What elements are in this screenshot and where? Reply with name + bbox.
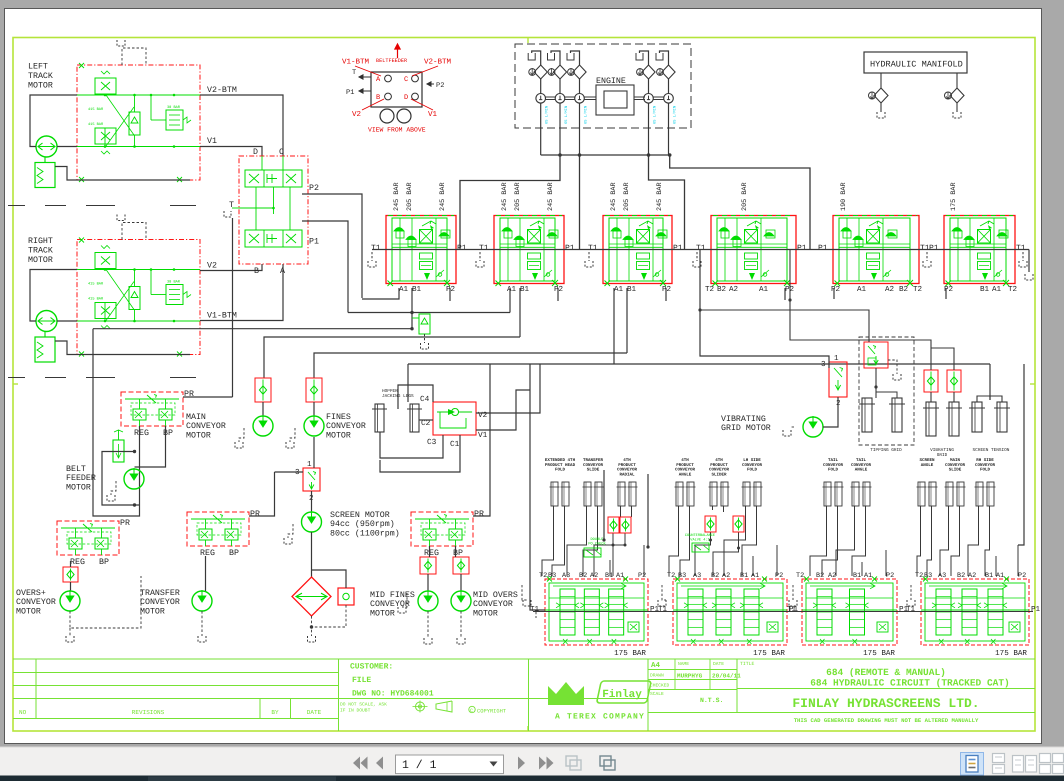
bottom bank2 spools [688,589,703,635]
transfer motor drain [201,611,203,636]
mid reg reg valve square [423,529,436,540]
transfer slide cylinder pair [584,482,591,506]
wire y337 to main check [264,337,520,378]
layout icon single page (selected) [961,753,984,776]
vib check L green check [927,377,934,385]
pump P5 outlet wire [668,103,670,155]
pump P1 outlet wire [540,103,542,155]
mid overs check red box [453,557,469,574]
svg-text:PRODUCT: PRODUCT [676,463,694,468]
toolbar background [0,747,1064,776]
tipping grid valve [864,342,888,368]
bank5 top edge green dashes [835,215,917,217]
left relief valve lower spring [101,151,110,154]
svg-text:TITLE: TITLE [740,661,755,667]
bottom bank2 inlet arrow [681,583,765,589]
wire bank4 P2 stub [784,288,786,300]
pump P5 boost circle [657,69,664,76]
bank3 top edge green dashes [605,215,670,217]
left port X marks [79,63,84,68]
bank2 relief glyph 2 [514,236,524,240]
svg-text:D: D [404,94,408,102]
left relief valve upper [95,78,116,94]
right shuttle check capsule [129,287,140,310]
svg-text:A3: A3 [693,572,701,580]
svg-text:COUNTERBALANCE: COUNTERBALANCE [685,533,715,538]
wire screen motor to filter [311,532,313,577]
svg-text:VIBRATING: VIBRATING [721,415,766,424]
svg-text:MOTOR: MOTOR [66,483,91,492]
pump P1 circle [536,94,546,104]
wire selector to fines [313,437,315,468]
svg-text:P2: P2 [662,285,672,294]
svg-text:C3: C3 [427,438,437,447]
svg-text:A1: A1 [857,286,867,294]
svg-text:BELT: BELT [66,465,86,474]
fines check green check [310,386,317,394]
svg-text:C: C [279,148,284,157]
mid reg block outline [411,512,473,546]
svg-text:SCREEN TENSION: SCREEN TENSION [973,448,1010,453]
bank1 relief glyph 1 [394,228,404,232]
left flush valve spring [183,117,191,123]
svg-text:175 BAR: 175 BAR [614,650,646,658]
svg-text:A1: A1 [751,572,759,580]
svg-text:P2: P2 [775,572,783,580]
svg-text:65 L/MIN: 65 L/MIN [584,106,589,124]
hydraulic manifold box [864,52,967,73]
bank pressure gallery chain [372,249,1029,251]
svg-text:TAIL: TAIL [856,458,867,463]
bank4 feed vertical [1018,364,1024,545]
svg-text:190 BAR: 190 BAR [840,182,848,211]
tipping cylinder left [862,398,872,432]
svg-text:P2: P2 [309,184,319,193]
svg-text:DOUBLE: DOUBLE [591,537,604,542]
svg-text:SLIDER: SLIDER [711,472,727,477]
svg-text:415 BAR: 415 BAR [88,282,104,287]
svg-text:REVISIONS: REVISIONS [132,709,165,716]
bank2 relief glyph 1 [502,228,512,232]
svg-text:245 BAR: 245 BAR [439,182,447,211]
bank2 lower spool box [528,253,541,259]
bank5 relief glyph right [886,233,896,237]
bank1 green body [392,218,447,281]
beltfeeder leader V2 to B [362,99,384,110]
pump P3 suction wire [571,51,580,65]
filter element arrow [296,593,327,600]
fines conveyor motor circle [304,416,324,436]
feed vertical 2 left of bank2 [647,474,649,547]
right relief valve upper [95,253,116,269]
right track motor block outline [77,240,200,355]
svg-text:T: T [352,69,356,77]
svg-text:B1: B1 [605,572,613,580]
bank3 relief glyph 1 [611,228,621,232]
pump P1 filter-pump wire [540,79,542,94]
svg-text:CONVEYOR: CONVEYOR [473,600,513,609]
svg-text:P1: P1 [818,244,828,253]
svg-text:A4: A4 [651,662,661,670]
main reg internal stubs [139,399,141,409]
bank1 gallery green [392,246,447,248]
right relief valve lower [95,303,116,319]
wire mid reg feed [473,364,490,516]
svg-text:175 BAR: 175 BAR [863,650,895,658]
wire bus to bank1 P1 [460,155,560,250]
svg-text:A2: A2 [722,572,730,580]
svg-text:P1: P1 [309,238,319,247]
bank6 outlet tank [1025,274,1033,280]
svg-text:245 BAR: 245 BAR [656,182,664,211]
pump P5 suction wire [660,51,669,65]
toolbar page dropdown arrow [490,762,498,767]
right port X marks [79,238,84,243]
left track motor green bus upper [77,94,200,96]
bank1 lower spool box [420,253,433,259]
vib check L red box [924,370,938,392]
svg-text:MOTOR: MOTOR [28,256,53,265]
bank1 small circle [438,273,442,277]
left case drain tank [117,40,125,46]
svg-text:A3: A3 [562,572,570,580]
svg-text:T2: T2 [915,572,923,580]
mid fines check red box [420,557,436,574]
svg-text:A1: A1 [996,572,1004,580]
wire fines check to motor [313,402,315,416]
bank1 center spool crossbox [420,230,433,244]
bottom bank4 port X marks [923,577,1009,582]
bank3 green body [609,218,663,281]
wire V1-BTM [200,264,283,321]
bank1 inner verticals [399,218,401,281]
svg-text:T1: T1 [371,244,381,253]
svg-text:A1: A1 [614,286,624,294]
bank1 relief glyph right [439,233,449,237]
cone symbol [436,701,452,712]
svg-text:65 L/MIN: 65 L/MIN [564,106,569,124]
svg-text:B2: B2 [816,572,824,580]
hopper wire C3 loop [380,432,443,458]
right flush valve spring [183,292,191,298]
svg-text:CONVEYOR: CONVEYOR [583,463,604,468]
beltfeeder leader V1 to D [411,99,433,110]
bank4 bottom arrow glyph [749,273,755,280]
svg-text:CONVEYOR: CONVEYOR [945,463,966,468]
svg-text:CONVEYOR: CONVEYOR [326,422,366,431]
bank6 top edge green dashes [946,215,1013,217]
overs check red box [63,567,78,582]
svg-text:CONVEYOR: CONVEYOR [709,468,730,473]
bank4 lower spool box [745,253,758,259]
pump P1 suction filter [534,65,547,79]
wire belt feeder loop [102,452,140,506]
frame centering tick top [527,38,529,44]
svg-text:A1: A1 [399,286,409,294]
svg-text:SCREEN: SCREEN [919,458,935,463]
svg-text:TRACK: TRACK [28,72,53,81]
svg-text:PRODUCT HEAD: PRODUCT HEAD [545,463,576,468]
svg-text:DATE: DATE [713,661,724,667]
b2 check R red box [733,516,744,532]
b2 check L green check [707,520,714,528]
hopper wire V2 [476,364,540,413]
wire V2-BTM [200,95,283,156]
svg-text:T1: T1 [588,244,598,253]
left crossover lines [106,95,134,135]
bank4 center spool crossbox [745,230,758,244]
frame centering tick left [13,383,18,385]
svg-text:MOTOR: MOTOR [326,431,351,440]
hopper wire C2 [419,419,433,421]
pump P2 circle [555,94,565,104]
svg-text:P2: P2 [831,285,841,294]
svg-text:P2: P2 [1018,572,1026,580]
left flush valve box [166,110,183,130]
wire gallery y312 [348,312,510,314]
pump P5 filter-pump wire [668,79,670,94]
overs reg pr arrow valve [83,524,92,533]
svg-text:A2: A2 [885,285,895,294]
wire bank2 A1 down [509,288,511,313]
svg-text:P2: P2 [446,285,456,294]
bank5 center spool crossbox [867,230,880,244]
wire vgm selector feed [700,300,829,368]
svg-text:CUSTOMER:: CUSTOMER: [350,663,393,672]
bank4 spool lever [747,221,761,226]
bank6 bottom arrow glyph [982,273,988,280]
svg-text:PO.CHECK: PO.CHECK [588,542,606,547]
svg-text:65 L/MIN: 65 L/MIN [653,106,658,124]
bottom bank1 T1 feed [530,570,545,610]
svg-text:MOTOR: MOTOR [16,607,41,616]
svg-text:V1: V1 [207,137,217,146]
svg-text:MAIN: MAIN [186,413,206,422]
svg-text:TAIL: TAIL [828,458,839,463]
mid fines motor tank bracket [402,593,407,607]
belt feeder motor tank [111,481,116,495]
svg-text:DO NOT SCALE, ASK: DO NOT SCALE, ASK [340,702,387,708]
hopper valve green check [437,409,472,416]
section break dashes row 1 [8,205,25,207]
bank2 green body [500,218,555,281]
overs reg internal stubs [75,528,77,538]
svg-text:175 BAR: 175 BAR [995,650,1027,658]
bank5 small circle [885,273,889,277]
svg-text:D: D [253,148,258,157]
bank1 port X marks [388,280,451,286]
bank6 relief glyph right [997,233,1007,237]
pump shaft link 1-2 [546,96,556,98]
bank4 T1 tank bracket [910,585,912,600]
wire filter bypass top [312,570,347,588]
svg-text:TRANSFER: TRANSFER [140,589,180,598]
wire central T down [232,218,234,397]
layout icon two page continuous [1040,754,1051,763]
bank3 spool lever [639,221,653,226]
bank3 relief glyph 2 [623,236,633,240]
b1 check R green check [622,521,629,529]
bank4 gallery green [717,246,787,248]
svg-text:BELTFEEDER: BELTFEEDER [376,58,407,64]
svg-text:T2: T2 [539,572,547,580]
wire filter drain [311,616,313,636]
junction dot belt 1 [133,450,136,453]
svg-text:ANGLE: ANGLE [679,472,692,477]
pump P3 circle [575,94,585,104]
beltfeeder drive arrow [395,44,400,58]
svg-text:T1: T1 [1016,244,1026,253]
svg-text:FOLD: FOLD [980,468,991,473]
bank6 port X marks [946,280,1010,286]
section break dashes row 2 [8,377,25,379]
svg-text:T2: T2 [913,285,923,294]
right wire motor feed lower [57,320,77,322]
svg-text:T1: T1 [479,244,489,253]
svg-text:OVERS+: OVERS+ [16,589,46,598]
wire filter bypass bottom [312,605,347,627]
svg-text:VIEW FROM ABOVE: VIEW FROM ABOVE [368,127,426,134]
svg-text:RADIAL: RADIAL [619,472,635,477]
pump P4 tank hook [636,53,643,60]
svg-text:BP: BP [99,558,109,567]
bank5 port X marks [835,280,914,286]
right wire brake line [55,341,190,355]
svg-text:MOTOR: MOTOR [473,609,498,618]
bank1 relief glyph 2 [406,236,416,240]
T port tank bracket [224,211,231,217]
hopper valve green links [440,412,466,428]
svg-text:GRID MOTOR: GRID MOTOR [721,424,771,433]
bottom bank2 port X marks [675,577,767,582]
bus junction dots [558,153,562,157]
toolbar next view icon [600,756,615,770]
bottom bank3 spools [817,589,832,635]
svg-text:65 L/MIN: 65 L/MIN [545,106,550,124]
hopper wire C1 loop [380,435,460,472]
lh fold cylinder pair [743,482,750,506]
bank4 port X marks [713,280,791,286]
extended 4th cylinder pair [551,482,558,506]
bank4 inner verticals [724,218,726,281]
svg-text:V1-BTM: V1-BTM [342,59,370,67]
pump P4 filter-pump wire [648,79,650,94]
right relief valve upper spring [101,246,110,249]
tipping grid enclosure [859,337,914,445]
svg-text:94cc (950rpm): 94cc (950rpm) [330,519,395,529]
hopper valve red box [433,402,476,435]
pump P3 suction filter [573,65,586,79]
bank2 inner verticals [507,218,509,281]
wire bus to bank5 P1 [670,155,810,250]
revisions table columns [35,659,37,719]
main check green check [259,386,266,394]
terex crown logo [548,682,584,703]
b1 check L red box [608,517,619,533]
bottom bank3 green frame [806,583,893,641]
toolbar last page button [539,757,554,770]
tipping cylinder right [892,398,902,432]
svg-text:B1: B1 [980,286,990,294]
junction dot belt 2 [133,503,136,506]
manifold drain filter at x=957 [956,73,958,88]
svg-text:CONVEYOR: CONVEYOR [16,598,56,607]
mid fines check green check [424,561,431,569]
svg-text:CONVEYOR: CONVEYOR [975,463,996,468]
wire long gallery y364 [408,363,990,365]
engine pump dashed enclosure [515,44,691,128]
svg-text:1: 1 [834,355,839,363]
svg-text:A TEREX COMPANY: A TEREX COMPANY [555,713,645,722]
beltfeeder drum right [397,109,411,123]
svg-text:B1: B1 [627,286,637,294]
svg-text:T1: T1 [787,606,797,614]
svg-text:CONVEYOR: CONVEYOR [617,468,638,473]
wire bank3 A1 down [613,288,615,364]
overs conveyor motor circle [60,591,80,611]
left track motor green bus lower [77,146,200,148]
pump P5 suction filter [662,65,675,79]
svg-text:FOLD: FOLD [555,468,566,473]
svg-text:ANGLE: ANGLE [855,468,868,473]
wire vgm selector to motor [823,397,838,427]
vib check R green check [950,377,957,385]
svg-text:V2: V2 [207,262,217,271]
svg-text:245 BAR: 245 BAR [501,182,509,211]
finlay logo box [597,681,652,703]
right track motor green bus upper [77,269,200,271]
left wire brake line [55,167,190,181]
svg-text:NO: NO [19,709,27,716]
svg-text:CONVEYOR: CONVEYOR [186,422,226,431]
svg-text:V1: V1 [478,431,488,440]
right case drain dashed stub [122,223,146,240]
svg-text:B1: B1 [853,572,861,580]
a4 cell [647,659,649,731]
bank4 green body [717,218,787,281]
mid fines motor circle [418,591,438,611]
svg-text:B1: B1 [985,572,993,580]
pump drive shaft [584,96,596,98]
wire bank3 B1 down [626,288,628,353]
filter bypass box [338,588,354,605]
central valve spool lower [245,230,302,247]
svg-text:FILE: FILE [352,676,371,685]
svg-text:A2: A2 [828,572,836,580]
tipping valve drain tank [888,360,897,374]
bank4 riser wires [917,506,921,576]
bank2 riser dots [709,539,712,542]
overs check green check [67,570,74,578]
vibrating cylinder left [926,402,936,436]
svg-text:DRAWN: DRAWN [650,673,664,679]
pump P4 circle [644,94,654,104]
screen tension cylinder left [972,402,982,432]
pump P2 tank hook [548,53,555,60]
port stub D [261,156,263,170]
b2 check R green check [735,520,742,528]
left relief valve lower [95,128,116,144]
bottom bank1 T1 tank [535,612,537,618]
svg-text:P1: P1 [929,244,939,253]
wire transfer reg PR [249,472,275,516]
wire vib link [931,348,954,370]
bank2 T1 tank bracket [662,585,666,600]
svg-text:BP: BP [163,429,173,438]
bank6 relief glyph 1 [952,228,962,232]
vibrating grid motor circle [803,417,823,437]
bank6 relief glyph 2 [964,236,974,240]
